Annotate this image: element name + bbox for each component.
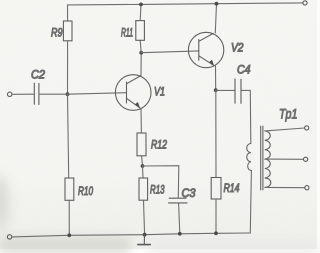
wire R11 top lead: [139, 4, 142, 20]
terminal secondary bottom: [305, 186, 309, 190]
transformer Tp1 primary winding: [247, 144, 252, 171]
terminal secondary centre: [304, 157, 308, 161]
svg-text:R14: R14: [224, 183, 240, 195]
wire R13 bottom lead: [144, 200, 145, 235]
wire R9 top lead: [67, 5, 69, 21]
transistor V2: [188, 32, 223, 67]
wire V2 collector up to top rail: [215, 4, 216, 33]
wire secondary top lead: [265, 128, 305, 131]
node top rail R11 junction: [139, 3, 143, 7]
wire secondary bottom lead: [265, 186, 305, 188]
node V2 emitter junction: [214, 88, 218, 92]
capacitor C2: [34, 83, 39, 104]
resistor R10: [65, 178, 74, 200]
resistor R11: [136, 21, 145, 41]
capacitor C4: [235, 79, 241, 103]
resistor R12: [137, 133, 146, 156]
wire V2 emitter down: [215, 66, 217, 90]
svg-text:R9: R9: [51, 28, 63, 40]
wire R10 bottom lead: [68, 200, 70, 235]
wire bottom rail: [12, 233, 250, 237]
resistor R13: [139, 178, 148, 200]
wire junction to C3 top: [143, 166, 179, 198]
node R14 bottom junction: [214, 231, 218, 235]
wire base node to V1 base: [68, 93, 127, 95]
node C3 bottom junction: [178, 232, 182, 236]
wire base node down to R10: [68, 94, 69, 178]
resistor R14: [211, 178, 221, 200]
svg-text:C3: C3: [182, 188, 197, 200]
wire C3 bottom lead: [179, 203, 180, 234]
resistor R9: [63, 21, 72, 41]
wire C4 to primary top: [242, 90, 251, 143]
node top rail V2 junction: [215, 2, 219, 6]
wire R11 node to V2 base: [141, 51, 199, 53]
wire V1 emitter down to R12: [140, 108, 142, 133]
wire R14 bottom lead: [215, 199, 217, 233]
terminal top-right: [303, 1, 307, 5]
terminal secondary top: [305, 126, 309, 130]
wire secondary centre tap: [265, 158, 304, 160]
wire R11 bottom lead: [140, 40, 141, 52]
node R10 bottom junction: [67, 233, 71, 237]
node R13 bottom junction: [143, 233, 147, 237]
wire emitter node down to R14: [215, 90, 217, 177]
svg-text:R11: R11: [121, 28, 133, 40]
ground: [138, 235, 150, 245]
wire V1 collector up: [140, 53, 142, 76]
transistor V1: [115, 75, 151, 111]
svg-text:C4: C4: [237, 65, 251, 77]
wire C2 to base node: [40, 93, 68, 95]
capacitor C3: [169, 198, 188, 203]
svg-text:Tp1: Tp1: [279, 107, 298, 122]
terminal bottom-left: [7, 235, 11, 239]
wire top supply rail: [68, 3, 303, 5]
svg-text:R10: R10: [78, 186, 93, 198]
wire emitter node to C4: [216, 89, 235, 91]
svg-text:R13: R13: [150, 185, 165, 197]
wire input to C2: [12, 93, 34, 95]
svg-text:R12: R12: [151, 140, 167, 152]
svg-text:V1: V1: [154, 87, 165, 99]
wire R13 top lead: [142, 166, 145, 178]
transformer Tp1 core: [261, 126, 263, 190]
svg-text:V2: V2: [231, 43, 244, 55]
transformer Tp1 secondary winding: [265, 131, 271, 188]
wire R9 bottom to base node: [67, 41, 69, 94]
node R11 bottom junction: [139, 51, 143, 55]
svg-text:C2: C2: [31, 70, 46, 82]
node base V1 junction: [66, 92, 70, 96]
wire R12 bottom lead: [141, 156, 144, 166]
node R12 R13 junction: [141, 164, 145, 168]
wire primary bottom to rail: [250, 171, 251, 233]
terminal input left: [8, 92, 12, 96]
